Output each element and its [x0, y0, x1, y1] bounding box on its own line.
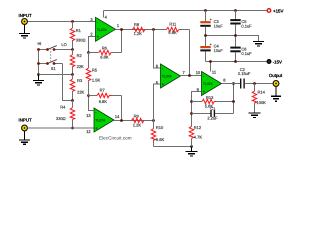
node R13 row left [190, 100, 193, 103]
svg-text:R3: R3 [77, 78, 83, 83]
resistor R13 5.6K [192, 95, 234, 109]
svg-text:R13: R13 [206, 95, 214, 100]
capacitor C4 10uF [200, 36, 223, 62]
svg-text:R8: R8 [134, 22, 140, 27]
svg-text:S1: S1 [51, 66, 57, 71]
svg-text:Output: Output [269, 73, 283, 78]
wire ground row bottom [154, 146, 192, 148]
svg-text:+: + [210, 17, 212, 21]
ground (input top) [19, 25, 30, 38]
op-amp U1B TL074 [86, 108, 120, 134]
wire +15V top rail [104, 10, 267, 12]
svg-text:ElecCircuit.com: ElecCircuit.com [99, 135, 132, 140]
wire feedback U1A [121, 30, 123, 53]
svg-text:1.2K: 1.2K [134, 31, 143, 36]
wire U1A output row [116, 29, 167, 31]
terminal +15V [267, 9, 283, 14]
wire input1 row [27, 21, 95, 23]
svg-text:+15V: +15V [273, 9, 283, 14]
svg-text:4.7K: 4.7K [194, 134, 203, 139]
svg-text:R11: R11 [169, 22, 177, 27]
svg-text:R6: R6 [102, 45, 108, 50]
wire U1D output row [222, 83, 240, 85]
capacitor C1 2.2uF [192, 106, 234, 121]
svg-text:C1: C1 [210, 106, 216, 111]
resistor R2 22K [70, 50, 84, 75]
ground (bottom middle) [186, 147, 198, 156]
resistor R1 330Ω [70, 22, 85, 50]
svg-text:R2: R2 [77, 53, 83, 58]
wire -15V rail [206, 61, 268, 63]
svg-text:0.1uF: 0.1uF [241, 23, 252, 28]
svg-text:10: 10 [196, 70, 201, 75]
svg-text:0.1uF: 0.1uF [241, 51, 252, 56]
terminal INPUT (top) [19, 13, 32, 24]
svg-text:TL074: TL074 [203, 82, 213, 86]
capacitor C6 0.1uF [230, 36, 252, 62]
wire U1C output [181, 75, 202, 77]
resistor R5 1.5K [86, 53, 100, 96]
op-amp U1C TL074 [156, 64, 186, 89]
svg-text:22K: 22K [77, 64, 84, 69]
svg-text:5.6K: 5.6K [156, 137, 165, 142]
switch gang dashed link [50, 48, 52, 62]
node pin2/R6/R5 [87, 51, 90, 54]
svg-text:INPUT: INPUT [19, 118, 32, 123]
resistor R8 1.2K [133, 22, 145, 36]
resistor R6 6.8K [89, 45, 122, 59]
wire pin2 jog [89, 37, 96, 53]
svg-text:R5: R5 [92, 68, 98, 73]
svg-text:14: 14 [115, 114, 120, 119]
svg-text:1.2K: 1.2K [133, 123, 142, 128]
svg-text:12: 12 [86, 129, 91, 134]
svg-text:R9: R9 [134, 113, 140, 118]
ground (under Output) [271, 87, 281, 102]
wire ground row to R2/R3 node [39, 74, 73, 76]
ground (under R14) [249, 113, 261, 117]
svg-text:TL074: TL074 [97, 28, 107, 32]
switch S1 gang a (Hi/LO) [38, 41, 74, 51]
svg-text:R7: R7 [100, 87, 106, 92]
resistor R4 330Ω [56, 101, 75, 129]
resistor R11 5.6K [166, 22, 189, 36]
svg-text:0.15uF: 0.15uF [238, 71, 251, 76]
resistor R12 4.7K [189, 125, 202, 147]
svg-text:10uF: 10uF [214, 23, 224, 28]
ground (input bottom) [19, 131, 30, 144]
node R5/R7/pin13 [87, 94, 90, 97]
wire switch common column [38, 50, 40, 75]
wire R11 to U1C output node [189, 30, 191, 76]
svg-text:10uF: 10uF [214, 48, 224, 53]
wire pin13 jog [89, 96, 95, 111]
svg-text:R4: R4 [60, 105, 66, 110]
svg-text:R12: R12 [194, 125, 202, 130]
svg-text:TL074: TL074 [162, 75, 172, 79]
svg-text:TL074: TL074 [95, 119, 105, 123]
wire switch-b to R3/R4 node [63, 64, 73, 101]
wire mid ground row [206, 36, 259, 42]
wire feedback column U1D [233, 84, 235, 114]
svg-text:100K: 100K [257, 100, 267, 105]
svg-text:-15V: -15V [273, 60, 282, 65]
wire pin5 column [154, 84, 161, 121]
svg-text:R1: R1 [76, 28, 82, 33]
svg-text:330Ω: 330Ω [56, 116, 66, 121]
wire input2 row [27, 127, 94, 129]
svg-text:22K: 22K [77, 90, 84, 95]
svg-text:6.8K: 6.8K [99, 99, 108, 104]
resistor R10 5.6K [151, 121, 164, 147]
resistor R14 100K [252, 84, 266, 113]
terminal Output [269, 73, 283, 86]
svg-text:13: 13 [86, 113, 91, 118]
switch S1 gang b [39, 60, 63, 71]
ground (switch) [33, 75, 44, 85]
wire feedback U1B [121, 96, 123, 121]
svg-text:1.5K: 1.5K [92, 77, 101, 82]
wire pin6 column [154, 30, 161, 69]
wire pin9 jog [192, 92, 202, 127]
svg-text:R10: R10 [156, 125, 164, 130]
op-amp U1D TL074 [196, 62, 227, 96]
svg-text:330Ω: 330Ω [76, 38, 86, 43]
resistor R9 1.2K [132, 113, 144, 127]
node junction input row [71, 20, 74, 23]
terminal INPUT (bottom) [19, 118, 32, 131]
svg-text:2.2uF: 2.2uF [207, 115, 218, 120]
svg-text:LO: LO [61, 42, 66, 47]
node C1 row left [190, 112, 193, 115]
capacitor C5 0.1uF [230, 11, 252, 36]
capacitor C2 0.15uF [238, 67, 273, 89]
capacitor C3 10uF [200, 11, 223, 36]
svg-text:6.8K: 6.8K [100, 55, 109, 60]
svg-text:INPUT: INPUT [19, 13, 32, 18]
resistor R7 6.8K [89, 87, 122, 104]
wire U1B output row [114, 120, 154, 122]
resistor R3 22K [70, 75, 84, 101]
svg-text:R14: R14 [258, 90, 266, 95]
op-amp U1A TL074 [90, 11, 120, 42]
svg-text:+: + [210, 42, 212, 46]
svg-text:5.6K: 5.6K [168, 30, 177, 35]
terminal -15V [267, 60, 282, 65]
svg-text:Hi: Hi [38, 41, 42, 46]
ground (supply mid) [253, 42, 264, 46]
